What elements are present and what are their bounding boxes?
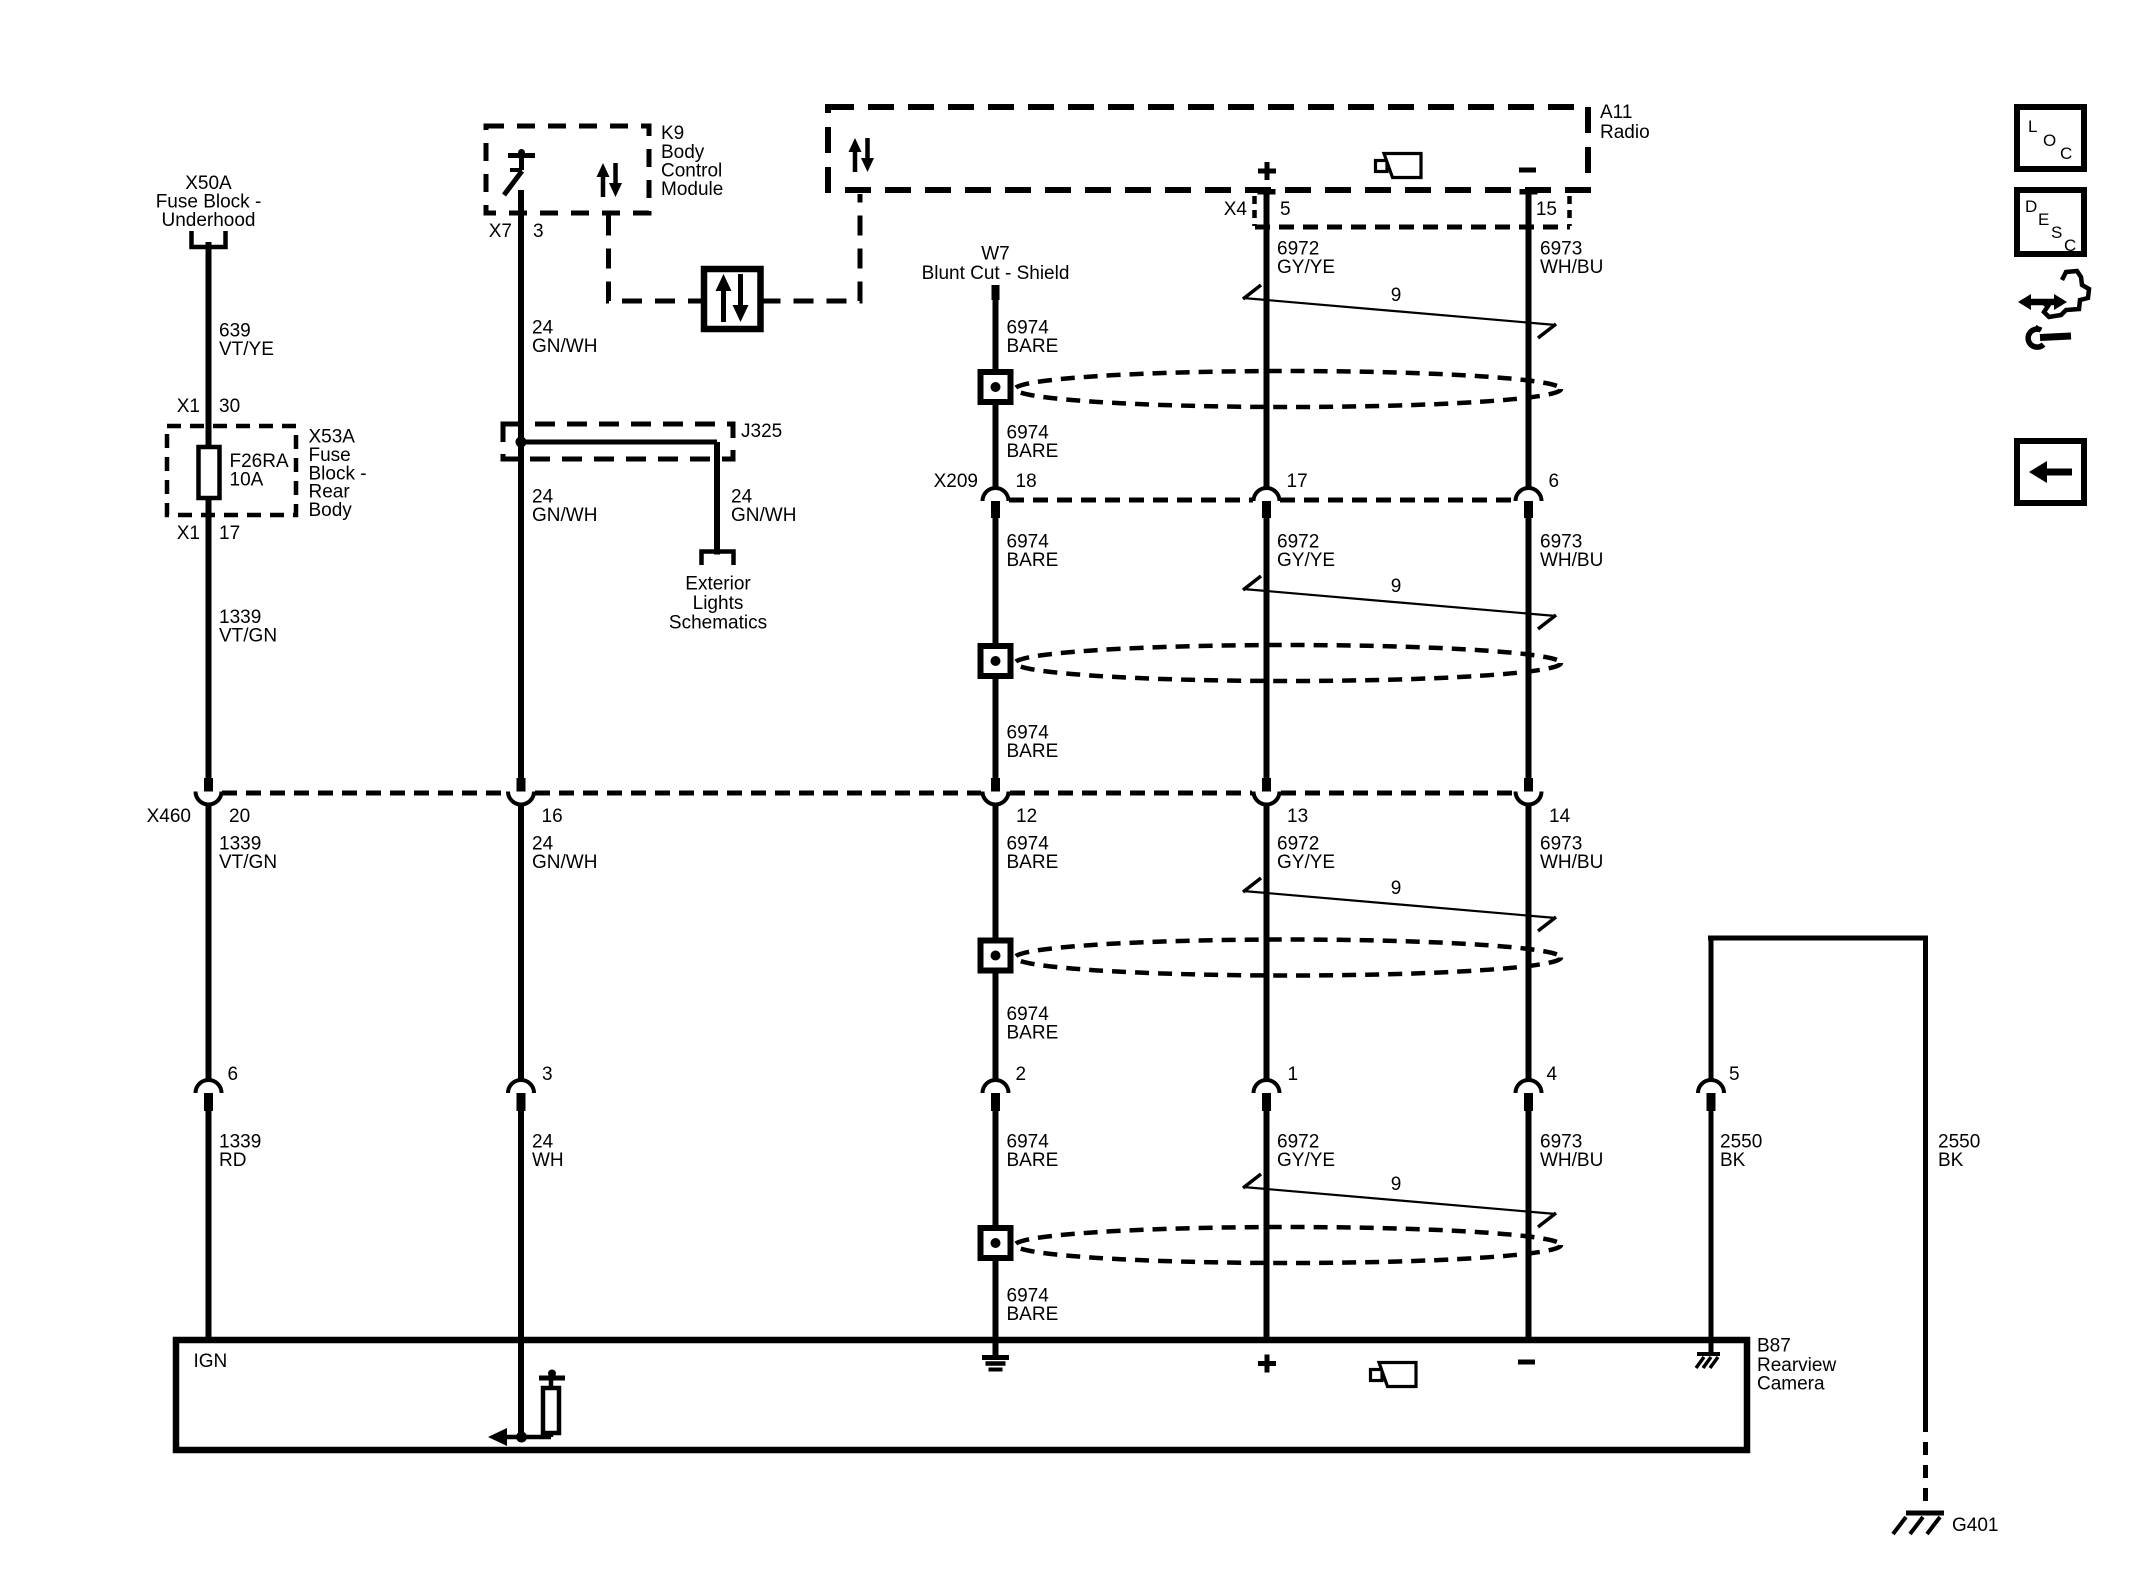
- svg-text:X460: X460: [147, 806, 191, 827]
- svg-text:GY/YE: GY/YE: [1277, 1150, 1335, 1171]
- svg-text:20: 20: [229, 806, 250, 827]
- wire 6974 BARE below shield box 2: [993, 678, 999, 778]
- wire 6973 WH/BU below X209: [1526, 518, 1532, 778]
- icon vehicle diagnostic (arrow, car outline, wrench): [2042, 271, 2089, 317]
- shield ellipse (group 1): [1015, 371, 1561, 407]
- camera icon (camera box): [1371, 1370, 1383, 1381]
- svg-text:Blunt Cut - Shield: Blunt Cut - Shield: [922, 263, 1070, 284]
- connector X209 terminal 17: [1254, 488, 1280, 501]
- svg-text:14: 14: [1549, 806, 1571, 827]
- connector X4 dashed marks and row line: [1252, 196, 1257, 226]
- svg-text:IGN: IGN: [194, 1351, 228, 1372]
- svg-text:VT/GN: VT/GN: [219, 852, 277, 873]
- plus terminal (radio): [1258, 169, 1276, 174]
- shield termination box (group 1): [981, 372, 1011, 402]
- svg-text:GY/YE: GY/YE: [1277, 550, 1335, 571]
- serial data dashed wire from data box to radio A11: [761, 194, 861, 301]
- svg-text:C: C: [2064, 236, 2076, 255]
- svg-text:BK: BK: [1938, 1150, 1964, 1171]
- svg-text:5: 5: [1280, 199, 1291, 220]
- svg-text:5: 5: [1729, 1064, 1740, 1085]
- wire 6972 GY/YE to camera: [1264, 1111, 1270, 1340]
- twisted-pair symbol with 9 twists (group 3): [1243, 891, 1556, 918]
- splice junction dot: [516, 437, 527, 448]
- svg-text:GN/WH: GN/WH: [532, 852, 597, 873]
- wire 24 GN/WH below X460: [518, 805, 524, 1081]
- plus terminal (camera): [1258, 1361, 1276, 1366]
- wire 6974 BARE segment below shield box 1: [993, 404, 999, 488]
- icon LOC box: [2017, 107, 2084, 169]
- wire 1339 VT/GN below X460: [206, 805, 212, 1081]
- svg-text:K9: K9: [661, 123, 684, 144]
- svg-text:X1: X1: [177, 396, 200, 417]
- connector X460 terminal 13: [1262, 778, 1271, 792]
- svg-text:GN/WH: GN/WH: [532, 336, 597, 357]
- serial data arrows inside radio: [853, 150, 858, 172]
- svg-text:BARE: BARE: [1007, 1023, 1059, 1044]
- svg-text:13: 13: [1287, 806, 1308, 827]
- svg-text:12: 12: [1016, 806, 1037, 827]
- camera icon (radio): [1376, 161, 1388, 172]
- minus terminal (radio): [1519, 168, 1536, 173]
- switch inside K9: [508, 153, 535, 158]
- connector X209 terminal 18: [983, 488, 1009, 501]
- internal resistor inside camera: [543, 1388, 559, 1433]
- junction node inside camera: [516, 1432, 527, 1443]
- shield termination box (group 2): [981, 646, 1011, 676]
- wire 2550 BK jumper top link: [1708, 936, 1928, 941]
- svg-text:6: 6: [1549, 471, 1560, 492]
- twisted-pair symbol with 9 twists (group 2): [1243, 589, 1556, 616]
- inline connector terminal 2 (bottom row): [983, 1080, 1009, 1093]
- serial data link box (two-way arrows): [704, 269, 761, 329]
- svg-text:BARE: BARE: [1007, 852, 1059, 873]
- wire 2550 BK left leg: [1709, 936, 1714, 1081]
- svg-text:15: 15: [1536, 199, 1557, 220]
- svg-text:BARE: BARE: [1007, 441, 1059, 462]
- svg-text:S: S: [2051, 223, 2062, 242]
- shield termination box (group 3): [981, 941, 1011, 971]
- svg-text:BARE: BARE: [1007, 741, 1059, 762]
- svg-text:9: 9: [1391, 285, 1402, 306]
- dashed box splice J325: [503, 424, 733, 459]
- wire 6974 BARE below X460: [993, 805, 999, 939]
- svg-text:WH/BU: WH/BU: [1540, 1150, 1603, 1171]
- svg-text:6: 6: [228, 1064, 239, 1085]
- shield termination box (group 4): [981, 1228, 1011, 1258]
- svg-text:RD: RD: [219, 1150, 246, 1171]
- svg-text:Body: Body: [309, 500, 353, 521]
- wire 6972 GY/YE from radio X4-5: [1258, 189, 1276, 195]
- svg-text:10A: 10A: [230, 470, 264, 491]
- svg-text:X209: X209: [934, 471, 978, 492]
- svg-text:W7: W7: [981, 244, 1010, 265]
- wire 6974 BARE shield drain (blunt cut pin): [992, 285, 1000, 300]
- svg-text:Underhood: Underhood: [161, 210, 255, 231]
- svg-text:X4: X4: [1224, 199, 1248, 220]
- svg-text:VT/YE: VT/YE: [219, 339, 274, 360]
- svg-text:1: 1: [1288, 1064, 1299, 1085]
- inline connector terminal 3 (bottom row): [508, 1080, 534, 1093]
- wire 6974 BARE to camera: [993, 1111, 999, 1226]
- svg-text:9: 9: [1391, 1174, 1402, 1195]
- chassis ground symbol (camera case ground): [1709, 1343, 1714, 1354]
- serial data dashed wire from K9 to data box: [609, 216, 705, 302]
- wire 6973 WH/BU from radio X4-15: [1520, 189, 1538, 195]
- svg-text:Exterior: Exterior: [685, 574, 751, 595]
- wire 6974 BARE below X209: [993, 518, 999, 644]
- inline connector terminal 5 (bottom row): [1698, 1080, 1724, 1093]
- dashed wire 2550 BK to G401: [1923, 1419, 1928, 1510]
- svg-text:BARE: BARE: [1007, 336, 1059, 357]
- wire 6972 GY/YE below X460: [1264, 805, 1270, 1081]
- svg-text:X1: X1: [177, 523, 200, 544]
- svg-text:Lights: Lights: [693, 593, 744, 614]
- svg-text:WH/BU: WH/BU: [1540, 852, 1603, 873]
- icon DESC box: [2017, 190, 2084, 254]
- svg-text:L: L: [2028, 117, 2037, 136]
- svg-text:Radio: Radio: [1600, 122, 1650, 143]
- svg-text:E: E: [2038, 210, 2049, 229]
- svg-text:G401: G401: [1952, 1515, 1998, 1536]
- svg-text:4: 4: [1547, 1064, 1558, 1085]
- twisted-pair symbol with 9 twists (group 4): [1243, 1187, 1556, 1214]
- wire 6973 WH/BU below X460: [1526, 805, 1532, 1081]
- wire 2550 BK to camera ground pin: [1709, 1111, 1714, 1343]
- dashed box K9 Body Control Module: [486, 126, 649, 213]
- splice branch wire 24 GN/WH to exterior lights: [521, 440, 717, 445]
- svg-text:Schematics: Schematics: [669, 613, 767, 634]
- svg-text:18: 18: [1016, 471, 1037, 492]
- earth ground symbol (shield termination inside camera): [993, 1343, 999, 1356]
- svg-text:17: 17: [1287, 471, 1308, 492]
- svg-text:BARE: BARE: [1007, 1150, 1059, 1171]
- svg-text:9: 9: [1391, 878, 1402, 899]
- shield ellipse (group 4): [1015, 1227, 1561, 1263]
- shield ellipse (group 3): [1015, 940, 1561, 976]
- connector X209 terminal 6: [1516, 488, 1542, 501]
- svg-text:30: 30: [219, 396, 240, 417]
- svg-text:BARE: BARE: [1007, 550, 1059, 571]
- svg-text:X7: X7: [489, 221, 512, 242]
- wire 24 WH to camera: [518, 1111, 524, 1437]
- svg-text:A11: A11: [1600, 102, 1632, 123]
- wire 24 GN/WH from K9 X7-3 down to J325 and X460: [518, 190, 524, 778]
- svg-text:WH/BU: WH/BU: [1540, 550, 1603, 571]
- inline connector terminal 4 (bottom row): [1516, 1080, 1542, 1093]
- connector symbol X50A Fuse Block - Underhood: [192, 231, 226, 247]
- wire 6973 WH/BU to camera: [1526, 1111, 1532, 1340]
- shield ellipse (group 2): [1015, 645, 1561, 681]
- svg-text:BK: BK: [1720, 1150, 1746, 1171]
- connector X460 terminal 20: [204, 778, 213, 792]
- component box B87 Rearview Camera: [176, 1340, 1747, 1450]
- svg-text:2: 2: [1016, 1064, 1027, 1085]
- twisted-pair symbol with 9 twists (group 1): [1243, 298, 1556, 325]
- inline connector row X460: [222, 791, 507, 796]
- wire 639 VT/YE from X50A to fuse block X53A: [206, 242, 212, 778]
- svg-text:Module: Module: [661, 179, 723, 200]
- off-page connector symbol to Exterior Lights Schematics: [702, 552, 734, 566]
- connector X460 terminal 14: [1524, 778, 1533, 792]
- svg-text:GN/WH: GN/WH: [731, 505, 796, 526]
- svg-text:17: 17: [219, 523, 240, 544]
- inline connector row X209: [1009, 498, 1253, 503]
- svg-text:BARE: BARE: [1007, 1304, 1059, 1325]
- svg-text:GN/WH: GN/WH: [532, 505, 597, 526]
- svg-text:3: 3: [533, 221, 544, 242]
- dashed box A11 Radio: [828, 107, 1588, 190]
- svg-text:WH/BU: WH/BU: [1540, 257, 1603, 278]
- wire 6974 BARE below shield box 4: [993, 1260, 999, 1343]
- svg-text:9: 9: [1391, 576, 1402, 597]
- svg-text:J325: J325: [741, 421, 782, 442]
- wire 6972 GY/YE below X209: [1264, 518, 1270, 778]
- minus terminal (camera): [1518, 1360, 1535, 1365]
- svg-text:C: C: [2060, 144, 2072, 163]
- wire 1339 RD to camera: [206, 1111, 212, 1340]
- svg-text:WH: WH: [532, 1150, 564, 1171]
- svg-text:Camera: Camera: [1757, 1374, 1825, 1395]
- svg-text:GY/YE: GY/YE: [1277, 852, 1335, 873]
- svg-text:3: 3: [542, 1064, 553, 1085]
- inline connector terminal 1 (bottom row): [1254, 1080, 1280, 1093]
- svg-text:16: 16: [542, 806, 563, 827]
- wire 6974 BARE below shield box 3: [993, 973, 999, 1081]
- ground symbol G401: [1906, 1511, 1944, 1516]
- svg-text:B87: B87: [1757, 1336, 1791, 1357]
- svg-text:O: O: [2043, 131, 2056, 150]
- wire 2550 BK right leg to G401: [1923, 936, 1928, 1420]
- internal arrow (signal out) inside camera: [504, 1435, 524, 1440]
- fuse F26RA 10A: [199, 447, 220, 498]
- serial data arrows inside K9: [601, 175, 606, 197]
- svg-text:D: D: [2025, 197, 2037, 216]
- connector X460 terminal 12: [991, 778, 1000, 792]
- svg-text:GY/YE: GY/YE: [1277, 257, 1335, 278]
- inline connector terminal 6 (bottom row): [196, 1080, 222, 1093]
- svg-text:VT/GN: VT/GN: [219, 626, 277, 647]
- icon back-arrow box: [2017, 441, 2084, 503]
- connector X460 terminal 16: [517, 778, 526, 792]
- dashed box X53A Fuse Block - Rear Body: [167, 426, 296, 515]
